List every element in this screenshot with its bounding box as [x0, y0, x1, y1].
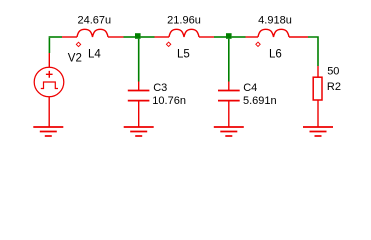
svg-text:21.96u: 21.96u	[167, 15, 201, 27]
wire: C4 bottom lead (red)	[228, 101, 230, 127]
inductor L6 coil	[258, 29, 289, 37]
wire: L4 right lead (red)	[108, 36, 124, 38]
svg-text:C3: C3	[153, 82, 167, 94]
wire: L5 right lead (red)	[199, 36, 214, 38]
wire: green segment out of node 2	[232, 36, 246, 38]
wire: green segment into node 2	[214, 36, 226, 38]
wire: top-left green segment with corner	[49, 36, 62, 38]
svg-text:5.691n: 5.691n	[243, 95, 277, 107]
wire: V2 top lead (red)	[48, 53, 50, 68]
wire: left vertical green from top corner to V2	[48, 38, 50, 53]
svg-text:24.67u: 24.67u	[77, 15, 111, 27]
voltage source V2 circle	[34, 67, 64, 97]
wire: C3 top lead (red)	[138, 82, 140, 91]
wire: green segment into node 1	[124, 36, 136, 38]
inductor L4 coil	[77, 29, 108, 37]
ground under C4	[214, 127, 244, 136]
svg-text:V2: V2	[68, 53, 82, 65]
wire: L6 right lead (red)	[289, 36, 308, 38]
wire: C4 top lead (red)	[228, 82, 230, 91]
svg-text:L5: L5	[177, 48, 190, 60]
svg-text:L6: L6	[269, 48, 282, 60]
L5 polarity diamond	[166, 42, 170, 46]
node junction 2	[226, 33, 232, 39]
resistor R2 body	[313, 77, 322, 100]
wire: V2 bottom lead (red)	[48, 97, 50, 127]
svg-text:10.76n: 10.76n	[152, 95, 186, 107]
wire: R2 top lead (red)	[317, 66, 319, 77]
capacitor C3 plates	[128, 91, 150, 101]
svg-text:L4: L4	[88, 48, 101, 60]
wire: green segment out of node 1	[141, 36, 155, 38]
ground under C3	[124, 127, 154, 136]
wire: C3 green drop from node 1	[138, 39, 140, 82]
wire: R2 bottom lead (red)	[317, 100, 319, 127]
wire: C4 green drop from node 2	[228, 39, 230, 82]
ground under V2	[33, 127, 63, 136]
svg-text:C4: C4	[243, 82, 257, 94]
inductor L5 coil	[169, 29, 199, 37]
ground under R2	[303, 127, 333, 136]
L6 polarity diamond	[256, 42, 260, 46]
V2 pulse waveform glyph	[41, 82, 58, 89]
svg-text:4.918u: 4.918u	[258, 15, 292, 27]
svg-text:R2: R2	[327, 81, 341, 93]
L4 polarity diamond	[76, 42, 80, 46]
V2 plus sign	[46, 71, 53, 78]
svg-text:50: 50	[327, 66, 339, 78]
capacitor C4 plates	[218, 91, 240, 101]
wire: L4 left lead (red)	[62, 36, 77, 38]
wire: C3 bottom lead (red)	[138, 101, 140, 127]
wire: L6 left lead (red)	[246, 36, 259, 38]
wire: top-right green segment with corner down	[308, 37, 318, 66]
node junction 1	[135, 33, 141, 39]
wire: L5 left lead (red)	[155, 36, 170, 38]
